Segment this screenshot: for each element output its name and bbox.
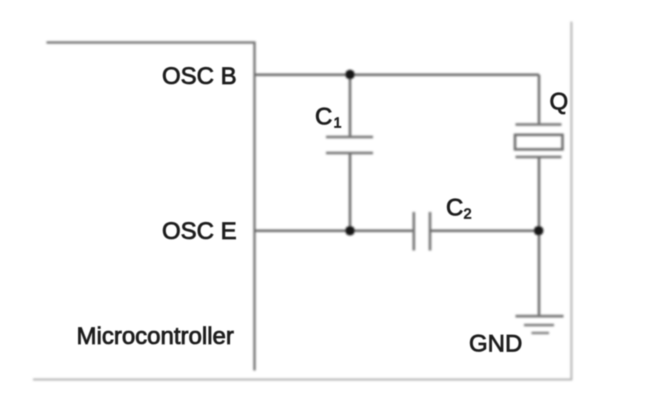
wire crystal bottom branch <box>538 157 541 231</box>
ground <box>516 316 564 333</box>
wire C1 top branch <box>349 75 352 137</box>
svg-text:C: C <box>315 104 332 131</box>
frame (page border, cropped) <box>33 22 571 380</box>
capacitor C2 <box>414 212 430 251</box>
wire OSC B to crystal <box>255 73 540 76</box>
microcontroller U1 box <box>47 43 255 371</box>
wire OSC E left segment <box>255 229 414 232</box>
svg-text:Microcontroller: Microcontroller <box>77 323 234 350</box>
wire C1 bottom branch <box>349 153 352 231</box>
svg-text:OSC B: OSC B <box>162 63 237 90</box>
wire to ground <box>538 231 541 316</box>
svg-text:GND: GND <box>469 331 522 358</box>
junction node OSC B / C1 <box>345 70 355 80</box>
wire crystal top branch <box>538 75 541 125</box>
junction node GND net <box>534 226 544 236</box>
svg-text:Q: Q <box>550 89 569 116</box>
svg-text:OSC E: OSC E <box>162 218 237 245</box>
svg-text:1: 1 <box>334 116 342 132</box>
wire OSC E right segment <box>430 229 539 232</box>
label C1 <box>315 104 342 132</box>
junction node OSC E / C1 <box>345 226 355 236</box>
capacitor C1 <box>326 137 373 153</box>
svg-text:2: 2 <box>464 207 472 223</box>
svg-text:C: C <box>446 195 463 222</box>
crystal Q <box>515 125 563 158</box>
label C2 <box>446 195 472 223</box>
